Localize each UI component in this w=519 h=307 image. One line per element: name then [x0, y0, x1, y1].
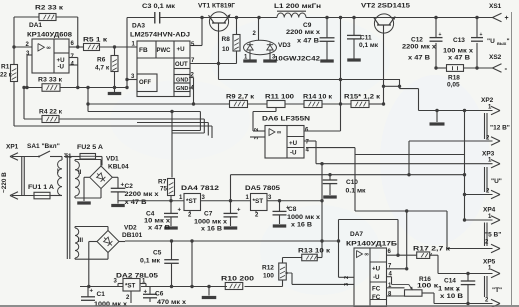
svg-text:-U: -U	[373, 274, 380, 281]
svg-text:OUT: OUT	[175, 62, 188, 68]
svg-text:+: +	[90, 289, 94, 295]
svg-text:KBL04: KBL04	[108, 164, 129, 171]
svg-text:10GWJ2C42: 10GWJ2C42	[274, 56, 320, 63]
svg-text:VD1: VD1	[106, 156, 119, 163]
svg-text:R6: R6	[97, 57, 106, 64]
svg-text:R12: R12	[262, 265, 274, 272]
svg-text:R8: R8	[222, 36, 231, 43]
svg-text:R5 1 к: R5 1 к	[83, 37, 108, 44]
svg-text:0.1 мк: 0.1 мк	[346, 188, 367, 195]
svg-text:C13: C13	[453, 37, 465, 44]
svg-text:SA1 "Вкл": SA1 "Вкл"	[27, 143, 60, 150]
svg-text:+U: +U	[289, 140, 298, 147]
svg-text:C6: C6	[155, 291, 164, 298]
svg-text:XP4: XP4	[483, 207, 496, 214]
svg-text:PWC: PWC	[157, 48, 172, 54]
svg-text:C11: C11	[360, 35, 372, 42]
svg-text:R14 10 к: R14 10 к	[303, 94, 333, 101]
svg-text:FU2 5 A: FU2 5 A	[77, 144, 103, 151]
svg-text:2: 2	[344, 276, 350, 279]
svg-text:х 47 В: х 47 В	[125, 199, 147, 206]
svg-text:4,7 к: 4,7 к	[95, 65, 110, 72]
svg-text:0,1 мк: 0,1 мк	[359, 42, 379, 49]
svg-text:х 16 В: х 16 В	[201, 226, 222, 233]
svg-text:LM2574HVN-ADJ: LM2574HVN-ADJ	[130, 32, 190, 39]
svg-text:3: 3	[344, 283, 350, 286]
svg-text:1000 мк х: 1000 мк х	[194, 219, 227, 226]
svg-text:100: 100	[263, 273, 274, 280]
svg-text:х 16 В: х 16 В	[291, 222, 312, 229]
svg-text:R2 33 к: R2 33 к	[35, 5, 64, 12]
svg-text:∞: ∞	[365, 252, 369, 258]
svg-text:х 47 В: х 47 В	[408, 55, 430, 62]
svg-text:C9: C9	[303, 22, 312, 29]
svg-text:+: +	[237, 208, 241, 214]
svg-text:100 к: 100 к	[417, 283, 439, 290]
svg-text:2200 мк х: 2200 мк х	[286, 29, 320, 36]
svg-text:C1: C1	[97, 291, 106, 298]
svg-text:R4 22 к: R4 22 к	[39, 109, 63, 116]
svg-text:DA1: DA1	[29, 22, 42, 29]
svg-text:OFF: OFF	[139, 80, 151, 86]
svg-text:0,05: 0,05	[447, 82, 460, 89]
svg-text:II: II	[78, 170, 82, 176]
svg-text:-U: -U	[58, 64, 65, 71]
svg-text:х 10 В: х 10 В	[440, 293, 463, 300]
svg-text:"5 В": "5 В"	[485, 232, 501, 239]
svg-text:75: 75	[160, 186, 167, 193]
svg-text:470 мк х: 470 мк х	[157, 299, 186, 306]
svg-text:DA3: DA3	[132, 23, 145, 30]
svg-text:XS2: XS2	[489, 54, 502, 61]
svg-text:+: +	[439, 32, 442, 38]
svg-text:*ST: *ST	[186, 198, 197, 205]
svg-text:х 47 В: х 47 В	[148, 225, 170, 232]
svg-text:FC: FC	[372, 286, 381, 293]
svg-text:R13 10 к: R13 10 к	[298, 248, 331, 255]
svg-text:": "	[507, 38, 510, 45]
svg-text:XS1: XS1	[489, 3, 502, 10]
svg-text:VT2 2SD1415: VT2 2SD1415	[361, 3, 410, 10]
svg-text:КР140УД608: КР140УД608	[27, 32, 72, 39]
svg-text:L1 200 мкГн: L1 200 мкГн	[274, 3, 321, 10]
svg-text:C4: C4	[146, 211, 155, 218]
svg-text:DA5 7805: DA5 7805	[245, 185, 280, 192]
svg-text:2200 мк х: 2200 мк х	[402, 44, 436, 51]
svg-text:+: +	[505, 15, 509, 22]
svg-text:C7: C7	[204, 211, 213, 218]
svg-text:∞: ∞	[277, 130, 281, 136]
svg-text:~220 В: ~220 В	[1, 172, 8, 193]
svg-text:100 мк х: 100 мк х	[443, 48, 473, 55]
svg-text:"U": "U"	[491, 178, 502, 185]
svg-text:FU1 1 A: FU1 1 A	[28, 184, 54, 191]
svg-text:0,1 мк: 0,1 мк	[140, 258, 161, 265]
svg-text:DA4 7812: DA4 7812	[181, 185, 219, 192]
svg-text:вых: вых	[497, 41, 507, 46]
svg-text:FB: FB	[139, 47, 148, 54]
svg-text:C14: C14	[444, 278, 456, 285]
svg-text:КР140УД17Б: КР140УД17Б	[346, 241, 397, 248]
svg-text:III: III	[78, 238, 83, 244]
svg-text:х 47 В: х 47 В	[448, 55, 470, 62]
svg-text:+U: +U	[177, 46, 186, 53]
svg-text:XP1: XP1	[6, 144, 19, 151]
svg-text:C2: C2	[125, 183, 134, 190]
svg-text:C5: C5	[153, 250, 162, 257]
svg-text:R15* 1,2 к: R15* 1,2 к	[344, 94, 381, 101]
svg-text:"12 В": "12 В"	[490, 125, 510, 132]
svg-text:DA7: DA7	[350, 231, 363, 238]
svg-text:DA6 LF355N: DA6 LF355N	[262, 116, 310, 123]
svg-text:2: 2	[254, 128, 260, 131]
svg-text:+: +	[456, 288, 460, 294]
svg-text:10: 10	[222, 46, 230, 53]
svg-text:*ST: *ST	[125, 283, 136, 290]
svg-text:10 мк х: 10 мк х	[144, 218, 170, 225]
svg-text:VT1 КТ819Г: VT1 КТ819Г	[198, 3, 235, 10]
svg-text:C8: C8	[288, 206, 297, 213]
svg-text:-: -	[505, 64, 508, 73]
svg-text:C3 0,1 мк: C3 0,1 мк	[142, 3, 176, 10]
svg-text:VD3: VD3	[278, 42, 291, 49]
svg-text:VD2: VD2	[124, 225, 137, 232]
svg-text:XP5: XP5	[483, 259, 496, 266]
svg-text:DB101: DB101	[122, 232, 143, 239]
svg-text:1000 мк х: 1000 мк х	[287, 214, 320, 221]
svg-text:+: +	[178, 208, 182, 214]
svg-text:-U: -U	[290, 150, 297, 157]
svg-text:R1: R1	[1, 64, 10, 71]
svg-text:*ST: *ST	[253, 198, 264, 205]
svg-text:XP2: XP2	[481, 97, 494, 104]
svg-text:"U: "U	[487, 38, 495, 45]
svg-text:+U: +U	[372, 266, 381, 273]
svg-text:R7: R7	[158, 179, 167, 186]
svg-text:R11 100: R11 100	[265, 94, 294, 101]
svg-text:+: +	[480, 32, 483, 38]
svg-text:C12: C12	[411, 37, 423, 44]
svg-text:R9 2,7 к: R9 2,7 к	[226, 94, 255, 101]
svg-text:C10: C10	[346, 179, 358, 186]
svg-text:R18: R18	[448, 75, 460, 82]
svg-text:R10 200: R10 200	[221, 276, 255, 283]
svg-text:"Т": "Т"	[492, 287, 502, 294]
svg-text:+: +	[144, 290, 148, 296]
svg-text:2200 мк х: 2200 мк х	[125, 191, 159, 198]
svg-text:XP3: XP3	[482, 151, 495, 158]
svg-text:∞: ∞	[47, 45, 51, 51]
svg-text:R3 33 к: R3 33 к	[38, 77, 63, 84]
svg-text:х 47 В: х 47 В	[297, 38, 319, 45]
